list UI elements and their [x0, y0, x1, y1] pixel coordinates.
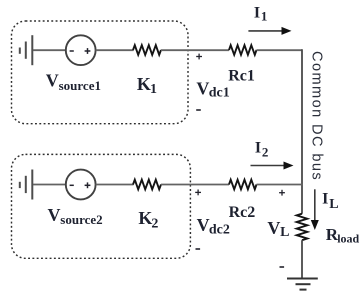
resistor Rload (vertical) — [297, 214, 308, 241]
wire: K1 to Rc1 (crosses box edge) — [161, 49, 229, 51]
wire: ground2 to Vsource2 — [33, 184, 66, 186]
svg-text:dc2: dc2 — [209, 223, 230, 238]
minus sign Vdc2 — [196, 248, 201, 250]
label K2 — [138, 208, 158, 231]
ground (bottom) — [287, 279, 318, 290]
label Rc2 — [229, 204, 256, 221]
wire: Vsource2 to K2 — [96, 184, 134, 186]
label Rc1 — [228, 68, 255, 85]
svg-text:V: V — [267, 218, 280, 238]
wire: ground1 to Vsource1 — [33, 49, 66, 51]
current arrow IL — [311, 189, 319, 230]
wire: K2 to Rc2 (crosses box edge) — [161, 184, 229, 186]
svg-text:dc1: dc1 — [209, 86, 230, 101]
resistor Rc2 — [229, 180, 257, 190]
svg-text:Rc2: Rc2 — [229, 204, 256, 221]
dashed enclosure (source 1 block) — [12, 21, 189, 124]
svg-text:V: V — [48, 205, 61, 225]
wire: Rload to ground — [301, 240, 303, 278]
plus sign VL — [279, 190, 285, 196]
current arrow I2 — [251, 162, 294, 170]
svg-text:Rc1: Rc1 — [228, 68, 255, 85]
svg-text:V: V — [196, 78, 209, 98]
svg-text:L: L — [280, 225, 289, 240]
plus sign Vdc1 — [196, 54, 202, 60]
svg-text:V: V — [46, 71, 59, 91]
label Vsource2 — [48, 205, 103, 227]
svg-text:I: I — [322, 191, 328, 208]
svg-text:1: 1 — [150, 82, 157, 97]
svg-text:V: V — [197, 215, 210, 235]
svg-text:Common DC bus: Common DC bus — [309, 51, 325, 181]
label K1 — [137, 74, 157, 97]
ground (source 1) — [20, 35, 33, 65]
voltage source Vsource1 — [66, 35, 96, 65]
resistor Rc1 — [229, 45, 257, 55]
label VL — [267, 218, 289, 240]
plus sign Vdc2 — [195, 190, 201, 196]
voltage source Vsource2 — [66, 170, 96, 200]
minus sign VL — [280, 266, 285, 268]
svg-text:K: K — [137, 74, 151, 94]
label I1 — [254, 5, 268, 24]
ground (source 2) — [20, 170, 33, 200]
svg-text:I: I — [254, 5, 260, 22]
dashed enclosure (source 2 block) — [12, 154, 191, 258]
wire: common DC bus vertical — [301, 49, 303, 213]
svg-text:source2: source2 — [60, 212, 102, 227]
wire: Rc2 to common DC bus junction — [257, 184, 303, 186]
svg-text:source1: source1 — [59, 78, 101, 93]
wire: Vsource1 to K1 — [96, 49, 134, 51]
resistor K1 — [133, 45, 161, 55]
label Vsource1 — [46, 71, 101, 93]
minus sign Vdc1 — [196, 109, 201, 111]
svg-text:1: 1 — [261, 9, 268, 24]
svg-text:load: load — [337, 232, 359, 246]
label I2 — [255, 140, 269, 160]
label Vdc1 — [196, 78, 229, 100]
label IL — [322, 191, 338, 212]
resistor K2 — [133, 180, 161, 190]
svg-text:K: K — [138, 208, 152, 228]
wire: Rc1 to common DC bus corner — [257, 49, 303, 51]
svg-text:2: 2 — [151, 216, 158, 231]
svg-text:2: 2 — [262, 145, 269, 160]
svg-text:I: I — [255, 140, 261, 157]
label Vdc2 — [197, 215, 230, 237]
label Rload — [326, 225, 360, 245]
current arrow I1 — [248, 27, 291, 35]
svg-text:L: L — [329, 197, 338, 212]
